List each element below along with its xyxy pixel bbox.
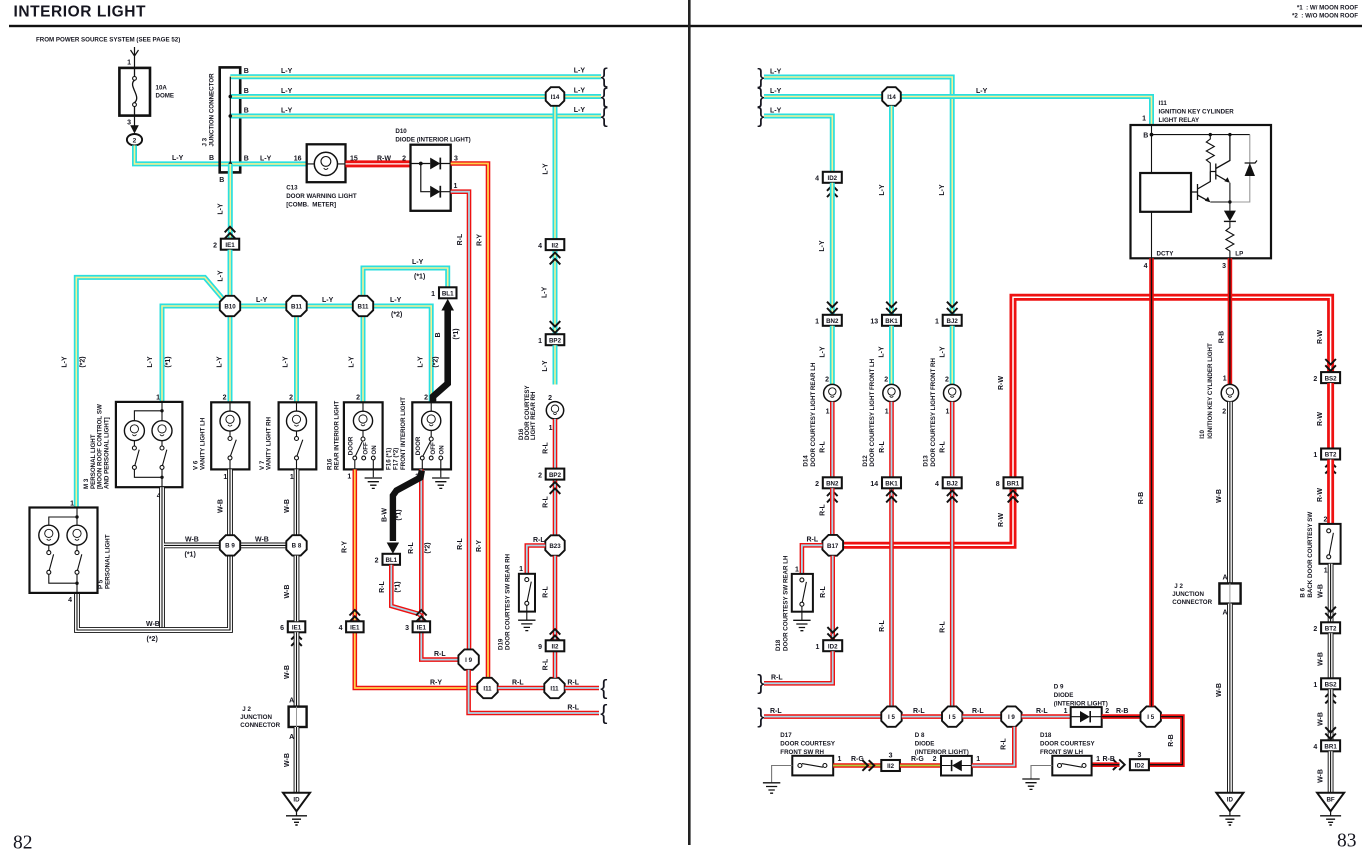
svg-text:D 9: D 9 (1054, 683, 1064, 690)
svg-text:1: 1 (454, 183, 458, 190)
svg-text:P 5: P 5 (97, 579, 104, 589)
svg-text:BP2: BP2 (549, 337, 562, 344)
svg-text:W-B: W-B (218, 499, 225, 513)
wire L-Y (*2) B11b to F16 (373, 306, 431, 402)
junction connector J2 right (1172, 575, 1240, 617)
svg-text:1: 1 (1096, 756, 1100, 763)
svg-text:L-Y: L-Y (172, 155, 184, 162)
svg-text:DOOR COURTESY SW REAR RH: DOOR COURTESY SW REAR RH (504, 553, 511, 650)
svg-text:2: 2 (289, 395, 293, 402)
svg-text:R-L: R-L (820, 503, 827, 515)
svg-text:L-Y: L-Y (417, 356, 424, 368)
svg-text:L-Y: L-Y (542, 360, 549, 372)
svg-text:3: 3 (889, 752, 893, 759)
svg-text:B: B (209, 155, 214, 162)
ground at D18 rear (793, 620, 810, 630)
svg-text:D14: D14 (803, 455, 810, 467)
svg-text:I11: I11 (1159, 100, 1168, 107)
wire R-L B23 left to D19 (527, 546, 546, 574)
wire II2 to D8 R-G (900, 763, 941, 768)
C13 door warning light (286, 144, 357, 208)
ground triangle ID left (283, 793, 310, 825)
svg-text:R-L: R-L (533, 537, 545, 544)
connector 4 II2 (538, 239, 564, 250)
svg-text:3: 3 (1222, 263, 1226, 270)
svg-text:B11: B11 (357, 303, 369, 310)
wire L-Y (*1) B10 to M3 (162, 306, 220, 402)
svg-text:I11: I11 (483, 685, 492, 692)
svg-text:3: 3 (1137, 752, 1141, 759)
wire row3 L-Y (230, 114, 601, 119)
wire I11 to I11 R-L (498, 686, 545, 691)
svg-text:R-W: R-W (1317, 488, 1324, 502)
svg-text:2: 2 (1313, 626, 1317, 633)
svg-text:R-L: R-L (940, 620, 947, 632)
svg-text:F17 (*2): F17 (*2) (393, 448, 400, 470)
connector 9 II2 (550, 629, 561, 641)
svg-text:DIODE: DIODE (915, 741, 935, 748)
svg-text:I14: I14 (551, 94, 560, 101)
W-B wire M3 pin4 down (159, 487, 165, 630)
relay zener diode (1230, 135, 1250, 202)
svg-text:1: 1 (156, 395, 160, 402)
svg-text:W-B: W-B (1317, 712, 1324, 726)
svg-text:I 9: I 9 (1008, 714, 1015, 721)
wire R-B relay pin4 to I5c (1149, 258, 1154, 706)
connector 2 BL1 (375, 554, 400, 565)
thick R-W BS2 to BT2 (1327, 383, 1334, 448)
connector 8 BR1 (996, 477, 1023, 488)
svg-text:R-W: R-W (998, 513, 1005, 527)
svg-text:L-Y: L-Y (281, 108, 293, 115)
svg-text:R-L: R-L (771, 675, 783, 682)
diode D9 interior light (1054, 683, 1108, 727)
svg-text:R-L: R-L (972, 708, 984, 715)
svg-text:B 9: B 9 (225, 543, 235, 550)
svg-text:L-Y: L-Y (256, 297, 268, 304)
svg-text:R-W: R-W (1317, 330, 1324, 344)
fuse 10A DOME (119, 68, 174, 116)
door courtesy light front RH D13 (923, 358, 961, 467)
svg-text:R-L: R-L (820, 440, 827, 452)
svg-text:R-L: R-L (408, 541, 415, 553)
svg-text:I14: I14 (887, 94, 896, 101)
connector 3 II2 (862, 760, 874, 771)
svg-text:2: 2 (213, 242, 217, 249)
front interior light F16/F17 (386, 395, 451, 481)
svg-text:4: 4 (538, 243, 542, 250)
W-B wire B8 to IE1 to J2 (294, 556, 300, 707)
svg-text:R-B: R-B (1218, 331, 1225, 343)
svg-text:}: } (757, 103, 764, 127)
svg-text:DOOR COURTESY: DOOR COURTESY (780, 741, 836, 748)
connector B17 (822, 535, 843, 556)
connector I5 b (942, 706, 962, 726)
connector 14 BK1 (870, 477, 901, 488)
svg-text:PERSONAL LIGHT: PERSONAL LIGHT (105, 534, 112, 589)
wire R-B relay pin3 to I10 lamp (1228, 258, 1233, 384)
connector B23 (545, 535, 564, 555)
svg-text:4: 4 (1313, 744, 1317, 751)
connector B11 b (353, 296, 373, 316)
connector 1 BJ2 (947, 302, 958, 314)
svg-text:1: 1 (838, 756, 842, 763)
connector I11 a (477, 678, 497, 698)
wire ID2 to BN2 (830, 183, 835, 315)
relay lower resistor (1226, 221, 1234, 258)
wire L-Y II2 to BP2 (553, 250, 558, 334)
svg-text:R-L: R-L (567, 704, 579, 711)
svg-text:L-Y: L-Y (879, 346, 886, 358)
personal light M3 (moon roof control sw) (83, 395, 182, 500)
svg-text:B 8: B 8 (292, 543, 302, 550)
svg-text:3: 3 (405, 625, 409, 632)
ignition key cylinder light relay I11 (1131, 100, 1272, 258)
connector 1 BN2 (827, 302, 838, 314)
svg-text:[COMB. METER]: [COMB. METER] (286, 201, 336, 208)
svg-text:L-Y: L-Y (147, 356, 154, 368)
door courtesy light front LH D12 (862, 358, 900, 466)
connector 1 BP2 (550, 321, 561, 333)
svg-text:2: 2 (815, 481, 819, 488)
svg-text:II2: II2 (552, 644, 559, 651)
diode D8 interior light (915, 732, 972, 776)
door courtesy sw rear RH D19 (497, 553, 535, 650)
svg-text:BACK DOOR COURTESY SW: BACK DOOR COURTESY SW (1307, 512, 1314, 598)
junction connector J3 (202, 67, 241, 172)
svg-text:1: 1 (519, 566, 523, 573)
svg-text:FRONT INTERIOR LIGHT: FRONT INTERIOR LIGHT (400, 397, 407, 470)
svg-text:1: 1 (127, 60, 131, 67)
svg-text:L-Y: L-Y (574, 68, 586, 75)
svg-text:LIGHT REAR RH: LIGHT REAR RH (530, 391, 537, 440)
svg-text:(*1): (*1) (165, 356, 172, 367)
svg-text:L-Y: L-Y (819, 240, 826, 252)
svg-text:J 2: J 2 (242, 706, 251, 713)
svg-text:(*1): (*1) (396, 509, 403, 520)
wire row2 L-Y (230, 94, 601, 99)
svg-text:L-Y: L-Y (282, 356, 289, 368)
svg-text:R-W: R-W (998, 376, 1005, 390)
svg-text:D17: D17 (780, 732, 792, 739)
svg-text:L-Y: L-Y (574, 107, 586, 114)
svg-text:A: A (289, 734, 294, 741)
wire R-Y R16 pin1 down to I11 (355, 469, 478, 688)
connector I14 (546, 87, 565, 106)
svg-text:{: { (601, 103, 608, 127)
svg-text:R-L: R-L (543, 585, 550, 597)
svg-text:1: 1 (815, 644, 819, 651)
connector 4 BJ2 (935, 477, 962, 488)
svg-text:I 9: I 9 (465, 657, 472, 664)
svg-text:IE1: IE1 (292, 625, 302, 632)
svg-text:R-L: R-L (820, 585, 827, 597)
wire B-W (*1) F16 pin1 to BL1 (393, 471, 422, 542)
wire R-L (*2) F16 pin1 down to IE1 and I9 (421, 469, 458, 659)
svg-text:C13: C13 (286, 184, 298, 191)
svg-text:L-Y: L-Y (260, 155, 272, 162)
svg-text:VANITY LIGHT RH: VANITY LIGHT RH (266, 416, 273, 470)
connector I5 a (881, 706, 901, 726)
svg-text:R-L: R-L (379, 580, 386, 592)
relay transistor Q2 (1191, 172, 1210, 202)
svg-text:W-B: W-B (284, 665, 291, 679)
svg-text:I 5: I 5 (949, 714, 956, 721)
svg-text:R-L: R-L (913, 708, 925, 715)
svg-text:(INTERIOR LIGHT): (INTERIOR LIGHT) (915, 749, 969, 756)
connector I9 (458, 649, 478, 669)
svg-text:R-L: R-L (879, 440, 886, 452)
ground at R16 (365, 478, 382, 488)
wire L-Y BP2 to D16 lamp (553, 345, 558, 384)
svg-text:JUNCTION CONNECTOR: JUNCTION CONNECTOR (209, 73, 216, 147)
svg-text:1: 1 (1142, 116, 1146, 123)
wire R-L (*1) BL1 down joining IE1 (391, 565, 421, 616)
svg-text:B17: B17 (827, 543, 839, 550)
svg-text:1: 1 (976, 756, 980, 763)
svg-text:1: 1 (1324, 567, 1328, 574)
wire R-L D14 down to BN2 (830, 402, 835, 478)
svg-text:R-L: R-L (567, 679, 579, 686)
wire L-Y (*1) B11b up to BL1 (363, 268, 448, 296)
svg-text:1: 1 (1313, 682, 1317, 689)
svg-text:L-Y: L-Y (879, 184, 886, 196)
power feed arrow into fuse (131, 47, 139, 68)
connector I11 b (544, 678, 564, 698)
svg-text:L-Y: L-Y (217, 203, 224, 215)
connector 1 BT2 (1313, 449, 1340, 460)
connector 3 IE1 (416, 610, 427, 622)
connector 2 BS2 (1313, 372, 1340, 383)
svg-text:R-W: R-W (377, 155, 391, 162)
svg-text:(*2): (*2) (432, 356, 439, 367)
svg-text:D13: D13 (923, 455, 930, 467)
wire W-B BR1 to BF ground (1328, 751, 1334, 793)
wire R-L B23 down to II2 to I11 (553, 556, 558, 678)
svg-text:BN2: BN2 (826, 481, 839, 488)
relay coil box (1140, 173, 1191, 212)
svg-text:2: 2 (945, 376, 949, 383)
svg-text:}: } (757, 671, 764, 695)
svg-text:BR1: BR1 (1324, 744, 1337, 751)
svg-text:*1 : W/ MOON ROOF: *1 : W/ MOON ROOF (1297, 5, 1358, 12)
svg-text:1: 1 (290, 474, 294, 481)
svg-text:R-G: R-G (911, 756, 924, 763)
svg-text:B: B (244, 155, 249, 162)
wire row1 L-Y (230, 74, 601, 79)
wire W-B B6 to BT2 (1328, 564, 1334, 623)
svg-text:BL1: BL1 (442, 291, 454, 298)
svg-text:R-Y: R-Y (430, 680, 442, 687)
page divider bar (688, 0, 691, 845)
wire L-Y (*2) B10 to P5 (76, 277, 224, 507)
svg-text:1: 1 (1313, 452, 1317, 459)
wire row1 to BJ2 column (764, 77, 952, 315)
svg-text:ON: ON (438, 445, 445, 455)
svg-text:1: 1 (1064, 708, 1068, 715)
svg-text:R-L: R-L (1000, 737, 1007, 749)
wire R-L BN2 to B17 (830, 488, 835, 535)
connector 4 BR1 (1313, 740, 1340, 751)
svg-text:L-Y: L-Y (217, 356, 224, 368)
svg-text:R-L: R-L (1036, 708, 1048, 715)
W-B wire V6 to B9 (227, 469, 233, 535)
wire R-L D13 down to I5 (950, 402, 955, 707)
svg-text:CONNECTOR: CONNECTOR (240, 722, 280, 729)
svg-text:IE1: IE1 (225, 242, 235, 249)
svg-text:2: 2 (133, 138, 137, 145)
wire W-B I10 to J2 (1227, 402, 1233, 584)
svg-text:DCTY: DCTY (1157, 251, 1175, 258)
svg-text:R-Y: R-Y (476, 234, 483, 246)
svg-text:REAR INTERIOR LIGHT: REAR INTERIOR LIGHT (334, 401, 341, 470)
thick R-W BT2 to B6 (1327, 460, 1334, 524)
svg-text:R-Y: R-Y (476, 540, 483, 552)
svg-text:R-L: R-L (543, 495, 550, 507)
svg-text:R-L: R-L (807, 537, 819, 544)
svg-text:2: 2 (1323, 516, 1327, 523)
svg-text:D12: D12 (862, 455, 869, 467)
wire I9 to D9 (1022, 714, 1071, 719)
svg-text:JUNCTION: JUNCTION (240, 714, 272, 721)
svg-text:D19: D19 (497, 638, 504, 650)
svg-text:I 5: I 5 (1147, 714, 1154, 721)
svg-text:D 8: D 8 (915, 732, 925, 739)
svg-text:L-Y: L-Y (322, 297, 334, 304)
svg-text:(*2): (*2) (79, 356, 86, 367)
svg-text:2: 2 (424, 395, 428, 402)
svg-text:(INTERIOR LIGHT): (INTERIOR LIGHT) (1054, 700, 1108, 707)
svg-text:L-Y: L-Y (939, 346, 946, 358)
vanity light RH V7 (259, 395, 317, 481)
svg-text:B: B (244, 68, 249, 75)
svg-text:8: 8 (996, 481, 1000, 488)
door courtesy sw rear LH D18 (775, 555, 813, 651)
wire R-L B17 down to ID2 (830, 556, 835, 641)
svg-text:1: 1 (815, 319, 819, 326)
wire D8 to I9 R-L (972, 727, 1015, 766)
svg-text:BF: BF (1326, 797, 1334, 804)
wire BK1 to D12 lamp (889, 326, 894, 385)
wire BJ2 to D13 lamp (950, 326, 955, 385)
svg-text:L-Y: L-Y (61, 356, 68, 368)
node oval 2 (127, 134, 142, 145)
wire D17 to II2 R-G (833, 763, 881, 768)
svg-text:VANITY LIGHT LH: VANITY LIGHT LH (199, 417, 206, 470)
wire I5b to I9 (962, 714, 1001, 719)
connector B8 (286, 535, 306, 555)
wire ID2 left to continuation (764, 651, 833, 683)
svg-text:II2: II2 (552, 242, 559, 249)
wire B11 to B11 (307, 304, 353, 309)
door courtesy front sw LH D18 (1031, 732, 1096, 779)
svg-text:LIGHT RELAY: LIGHT RELAY (1159, 117, 1201, 124)
connector 6 IE1 (280, 621, 305, 632)
svg-text:BJ2: BJ2 (947, 318, 959, 325)
svg-text:FROM POWER SOURCE SYSTEM (SEE: FROM POWER SOURCE SYSTEM (SEE PAGE 52) (36, 37, 180, 44)
svg-text:I11: I11 (550, 685, 559, 692)
svg-text:4: 4 (68, 597, 72, 604)
svg-text:R-G: R-G (851, 756, 864, 763)
svg-text:2: 2 (538, 472, 542, 479)
svg-text:82: 82 (13, 833, 33, 854)
wire W-B J2 to ID ground (1227, 604, 1233, 793)
svg-text:W-B: W-B (1317, 584, 1324, 598)
svg-text:ID: ID (293, 797, 300, 804)
svg-text:2: 2 (375, 558, 379, 565)
svg-text:BT2: BT2 (1325, 452, 1337, 459)
svg-text:W-B: W-B (1317, 769, 1324, 783)
svg-text:L-Y: L-Y (542, 286, 549, 298)
svg-text:B: B (1143, 132, 1148, 139)
connector B9 (220, 535, 240, 555)
relay resistor (1206, 135, 1214, 172)
svg-text:R-L: R-L (434, 651, 446, 658)
svg-text:13: 13 (870, 319, 878, 326)
svg-text:L-Y: L-Y (543, 163, 550, 175)
W-B wire V7 to B8 (294, 469, 300, 535)
svg-text:(*2): (*2) (391, 312, 402, 319)
svg-text:R-W: R-W (1317, 412, 1324, 426)
connector 3 ID2 (1130, 752, 1149, 770)
wire I14 down col2 (889, 106, 894, 315)
svg-text:W-B: W-B (284, 753, 291, 767)
wire J3 bottom to IE1 (228, 164, 233, 239)
wire B10 to B11 (240, 304, 286, 309)
svg-text:B: B (244, 88, 249, 95)
svg-text:W-B: W-B (185, 537, 199, 544)
svg-text:R-L: R-L (770, 708, 782, 715)
wire B (*1) BL1 to F16 pin2 (433, 307, 448, 402)
W-B wire J2 to ground (294, 727, 300, 793)
svg-text:1: 1 (935, 319, 939, 326)
svg-text:B 6: B 6 (1300, 587, 1307, 597)
relay internal rail (1152, 125, 1250, 135)
ground triangle BF (1317, 793, 1344, 825)
svg-text:14: 14 (870, 481, 878, 488)
title underline (9, 25, 1362, 27)
svg-text:ID2: ID2 (827, 175, 837, 182)
ground at D19 (518, 620, 535, 630)
svg-text:2: 2 (402, 155, 406, 162)
svg-text:R-B: R-B (1103, 756, 1115, 763)
svg-text:IE1: IE1 (417, 625, 427, 632)
thick R-W trunk B17 to BR1 to BS2 (843, 297, 1331, 545)
door courtesy light rear LH D14 (803, 362, 841, 467)
svg-text:2: 2 (356, 395, 360, 402)
ground at D18 front (1022, 779, 1039, 789)
svg-text:A: A (1223, 575, 1228, 582)
svg-text:R-B: R-B (1168, 734, 1175, 746)
svg-text:W-B: W-B (146, 621, 160, 628)
wire row2 through I14 to relay (764, 97, 1152, 125)
wire row3 to ID2 column (764, 116, 832, 172)
svg-text:ID: ID (1227, 797, 1234, 804)
svg-text:{: { (600, 675, 607, 699)
svg-text:ID2: ID2 (1135, 762, 1145, 769)
svg-text:L-Y: L-Y (349, 356, 356, 368)
wire D9 to I5c R-B (1102, 714, 1141, 719)
svg-text:R-L: R-L (457, 233, 464, 245)
svg-text:R-B: R-B (1138, 492, 1145, 504)
connector I14 right page (882, 87, 901, 106)
svg-text:2: 2 (933, 756, 937, 763)
svg-text:D10: D10 (395, 128, 407, 135)
svg-text:CONNECTOR: CONNECTOR (1172, 599, 1212, 606)
svg-text:1: 1 (885, 409, 889, 416)
wire J3 to C13 (229, 161, 307, 166)
svg-text:DOOR COURTESY: DOOR COURTESY (1040, 741, 1096, 748)
